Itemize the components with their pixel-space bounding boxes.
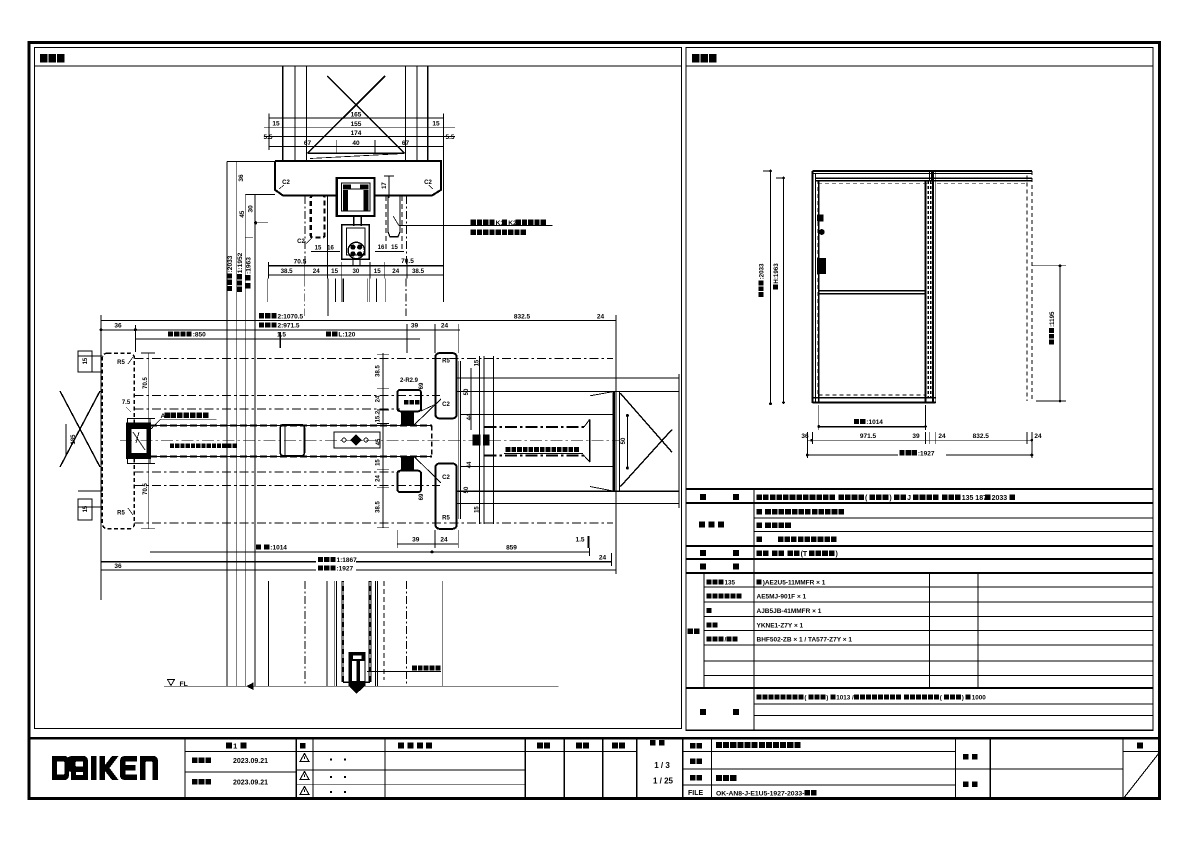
svg-text:R5: R5	[117, 511, 125, 517]
svg-text:155: 155	[351, 121, 362, 128]
svg-text:2:971.5: 2:971.5	[278, 323, 300, 330]
svg-text:832.5: 832.5	[973, 433, 990, 440]
svg-text:15: 15	[391, 245, 398, 251]
dim ext verticals right	[588, 548, 590, 556]
svg-text:24: 24	[392, 268, 399, 275]
spec label 仕上げ	[699, 522, 724, 528]
svg-text:H:1963: H:1963	[773, 263, 780, 284]
pocket end wall thick vertical	[613, 391, 616, 491]
projection verticals between sections	[267, 279, 269, 303]
elevation frame top lines	[813, 170, 1033, 172]
elevation right dim 1195	[1059, 266, 1061, 401]
svg-text:40: 40	[352, 140, 360, 147]
pocket rail bar dashdot edges	[485, 426, 585, 428]
header 第1版	[226, 742, 247, 751]
svg-text:38.5: 38.5	[412, 268, 425, 275]
svg-text:30: 30	[352, 268, 359, 275]
revision row dividers	[296, 769, 525, 771]
FL line	[164, 685, 559, 687]
spec sub 扉	[707, 608, 712, 613]
svg-text:70.5: 70.5	[143, 376, 149, 388]
elevation left dim line 2033	[770, 171, 772, 404]
pocket wall verticals	[457, 361, 459, 519]
svg-text:1013 /: 1013 /	[836, 695, 854, 702]
head jamb body outline	[275, 161, 441, 196]
spec label 品番	[688, 628, 700, 634]
svg-text:39: 39	[411, 323, 419, 330]
svg-text:R5: R5	[442, 516, 450, 522]
svg-text:C2: C2	[442, 475, 450, 481]
title block top border	[28, 737, 1160, 739]
svg-text::1014: :1014	[866, 419, 883, 426]
callout A fixed frame	[161, 412, 209, 419]
elevation bottom dim 1014	[819, 426, 926, 428]
mohair black lower	[401, 456, 414, 470]
left jamb outline	[102, 353, 134, 529]
callout leader top right	[393, 216, 399, 225]
svg-text:45: 45	[239, 210, 246, 218]
bottom dim 39 24	[397, 543, 458, 545]
name col dividers	[683, 768, 1123, 770]
svg-text:YKNE1-Z7Y × 1: YKNE1-Z7Y × 1	[757, 622, 804, 629]
hanger bolt	[353, 216, 355, 226]
svg-text:44: 44	[467, 461, 473, 468]
svg-text:24: 24	[938, 433, 946, 440]
break fold line	[310, 154, 404, 159]
fixed frame piece lower	[435, 464, 456, 529]
revision dots	[330, 759, 332, 761]
dim line 155 / ceiling line	[264, 126, 455, 128]
floor guide channel walls	[341, 581, 344, 682]
svg-text:R5: R5	[117, 360, 125, 366]
svg-text:36: 36	[114, 563, 122, 570]
svg-text:/: /	[725, 637, 727, 644]
pocket jamb verticals	[927, 181, 929, 397]
svg-text:): )	[889, 495, 891, 502]
svg-text:16: 16	[378, 245, 385, 251]
svg-text:15.2: 15.2	[376, 410, 382, 422]
svg-text:5.5: 5.5	[263, 134, 272, 141]
svg-text::850: :850	[193, 332, 206, 339]
svg-text::1014: :1014	[270, 545, 287, 552]
elevation rail band	[816, 177, 1033, 179]
svg-text:24: 24	[1034, 433, 1042, 440]
svg-text:15: 15	[432, 121, 440, 128]
svg-text::2033: :2033	[227, 255, 234, 272]
svg-text:15: 15	[376, 459, 382, 466]
svg-text:1000: 1000	[972, 695, 987, 702]
leader lines lower	[414, 456, 441, 483]
vertical height dim lines	[226, 161, 228, 686]
dim 50 rotated right	[621, 437, 627, 444]
door leaf left edge	[818, 181, 820, 403]
dim 15 rotated right bottom	[475, 506, 481, 513]
svg-text:15: 15	[331, 268, 338, 275]
dim 70.5 rotated bottom	[143, 482, 149, 494]
dim line 174 / ceiling line 2	[264, 135, 455, 137]
svg-text::1195: :1195	[1049, 311, 1056, 327]
svg-text:24: 24	[599, 554, 607, 561]
svg-text:971.5: 971.5	[860, 433, 877, 440]
svg-text:L:120: L:120	[338, 332, 355, 339]
svg-text::2033: :2033	[759, 263, 766, 279]
leader lines upper	[414, 399, 441, 425]
svg-text::1927: :1927	[337, 566, 354, 573]
centerline verticals below head	[304, 196, 306, 265]
head bottom dim line thick	[268, 265, 443, 267]
pocket jamb dim line vertical	[382, 353, 384, 528]
svg-text:5.5: 5.5	[445, 134, 454, 141]
dim line 1014 & 859	[150, 551, 590, 553]
svg-text:1:1952: 1:1952	[237, 252, 244, 273]
svg-text:2023.09.21: 2023.09.21	[233, 758, 268, 765]
wall break X left	[60, 391, 100, 467]
svg-text:15: 15	[83, 357, 89, 364]
header 版	[300, 743, 306, 749]
dim 185 rotated	[71, 434, 77, 445]
left panel frame	[35, 48, 682, 729]
svg-text:24: 24	[597, 313, 605, 320]
trolley stem lines	[352, 259, 354, 266]
svg-text:36: 36	[801, 433, 809, 440]
svg-text:1:1867: 1:1867	[337, 557, 358, 564]
svg-text:C2: C2	[424, 180, 432, 186]
dim line 40-67	[269, 146, 443, 148]
svg-text:17: 17	[382, 182, 388, 189]
svg-text:): )	[962, 695, 964, 702]
spec value 要式	[757, 494, 1015, 502]
hanger rail extrusion	[337, 178, 375, 216]
svg-text:15: 15	[475, 359, 481, 366]
svg-text:38.5: 38.5	[376, 500, 382, 512]
svg-text:135: 135	[725, 580, 736, 587]
door receiving channel step outline	[127, 418, 150, 463]
left wall stub lines	[78, 355, 102, 357]
svg-text:24: 24	[376, 474, 382, 481]
label cap screw right	[506, 447, 579, 452]
svg-text:1.5: 1.5	[575, 537, 584, 544]
pocket dashed outline	[1026, 176, 1028, 402]
svg-text:C2: C2	[442, 402, 450, 408]
FL small arrow	[247, 685, 258, 687]
svg-text:15: 15	[272, 121, 280, 128]
mohair holder upper	[397, 390, 421, 411]
dim 45 rotated	[239, 210, 246, 218]
elevation top dashed	[818, 182, 1027, 184]
header 縮尺	[650, 740, 664, 746]
value 図名	[716, 775, 736, 781]
pull handle plan	[280, 425, 304, 456]
first edition col divider	[185, 771, 296, 773]
label 図名	[690, 775, 702, 781]
svg-text:2:1070.5: 2:1070.5	[278, 313, 304, 320]
svg-text:): )	[826, 695, 828, 702]
label 組員	[963, 781, 977, 787]
right wall lines	[457, 377, 679, 379]
door top guide pocket right U	[388, 196, 400, 237]
svg-text:36: 36	[238, 174, 245, 182]
svg-text:15: 15	[315, 246, 322, 252]
door hardware lock case	[817, 258, 826, 274]
pocket dims rotated top	[376, 364, 382, 376]
svg-text::1963: :1963	[245, 257, 252, 274]
header 承認	[537, 743, 550, 749]
brace base line	[308, 152, 405, 154]
svg-text:69: 69	[419, 493, 425, 500]
svg-text:24: 24	[313, 268, 320, 275]
dim ticks 39-24 top	[406, 324, 408, 353]
header 頁	[1137, 743, 1143, 749]
dim 50 44 lower	[464, 486, 470, 493]
svg-text:1 / 25: 1 / 25	[653, 777, 674, 786]
header 作成	[612, 743, 625, 749]
svg-text:38.5: 38.5	[376, 364, 382, 376]
FL level mark	[168, 680, 175, 686]
X cross brace	[327, 76, 404, 153]
svg-text:185: 185	[71, 434, 77, 445]
dim line 1927	[100, 569, 616, 571]
svg-text:50: 50	[464, 486, 470, 493]
制定日 row	[192, 757, 211, 763]
elevation bottom dim row	[807, 439, 1032, 441]
rail end	[589, 419, 591, 462]
dim 45 rotated at plate	[376, 438, 382, 445]
svg-text:16: 16	[327, 246, 334, 252]
svg-text:39: 39	[912, 433, 920, 440]
dim 17 hanger	[382, 182, 388, 189]
wall stud lines above head jamb	[282, 66, 284, 161]
spec value panel	[757, 509, 845, 515]
door center dash-dot line	[120, 440, 620, 442]
header 改訂履歴	[398, 743, 432, 749]
pocket dims rotated bottom	[376, 459, 382, 466]
small dim arrow	[256, 222, 268, 224]
left panel header line	[35, 65, 682, 67]
spec sub 引手	[707, 622, 718, 627]
svg-text:AE5MJ-901F × 1: AE5MJ-901F × 1	[757, 594, 807, 601]
plan dim line 850	[135, 338, 420, 340]
door hardware thumbturn	[817, 214, 823, 221]
dim 15 rotated right top	[475, 359, 481, 366]
jamb dim line vertical	[148, 353, 150, 529]
DAIKEN logo	[52, 756, 158, 780]
plan dim line 971.5	[101, 329, 460, 331]
callout text line1	[471, 220, 546, 227]
svg-text:R5: R5	[442, 359, 450, 365]
right panel title 正面図	[692, 54, 716, 63]
label cap screw left	[170, 444, 237, 448]
svg-text:24: 24	[441, 323, 449, 330]
svg-text:AJB5JB-41MMFR × 1: AJB5JB-41MMFR × 1	[757, 608, 822, 615]
spec label 要式	[700, 494, 706, 500]
label 作名	[963, 754, 977, 760]
plan dim line 1070.5	[101, 320, 616, 322]
svg-text:BHF502-ZB × 1 / TA577-Z7Y × 1: BHF502-ZB × 1 / TA577-Z7Y × 1	[757, 637, 853, 644]
floor projection verticals	[267, 581, 269, 686]
spec label 把手	[700, 550, 706, 556]
wall hidden dash lines lower	[134, 471, 400, 473]
svg-text:15: 15	[374, 268, 381, 275]
rail end bracket black	[473, 435, 481, 446]
dim 70.5 rotated top	[143, 376, 149, 388]
spec value 備考	[757, 695, 987, 702]
spec value frame	[757, 536, 837, 542]
spec table column lines	[753, 489, 755, 730]
header 確認	[576, 743, 589, 749]
svg-text:1.5: 1.5	[277, 332, 286, 339]
elevation left dim line 1963	[783, 178, 785, 403]
spec sub 固定枠135	[707, 580, 736, 587]
fixed frame piece upper	[435, 353, 456, 418]
left panel title 断面図	[40, 54, 64, 63]
svg-text:67: 67	[402, 140, 410, 147]
svg-text:859: 859	[506, 545, 517, 552]
svg-text:): )	[836, 551, 838, 558]
svg-text:165: 165	[351, 112, 362, 119]
spec sub 本体錠	[707, 637, 738, 644]
svg-text:36: 36	[114, 322, 122, 329]
svg-text:30: 30	[248, 205, 255, 213]
dashed pocket verticals	[385, 196, 387, 252]
callout text line2	[471, 230, 527, 235]
spec label 備考	[700, 709, 706, 715]
svg-text:24: 24	[440, 537, 448, 544]
svg-text:50: 50	[621, 437, 627, 444]
revision triangles	[300, 754, 309, 762]
left wall cap 15 top	[78, 351, 92, 372]
svg-text:832.5: 832.5	[514, 313, 531, 320]
svg-text:2033: 2033	[992, 495, 1008, 502]
svg-text:45: 45	[376, 438, 382, 445]
wall break X right	[620, 393, 672, 452]
right panel header line	[686, 65, 1153, 67]
guide pin label	[412, 665, 441, 670]
svg-text:70.5: 70.5	[401, 258, 414, 265]
svg-text:39: 39	[412, 537, 420, 544]
label 品番	[690, 758, 702, 764]
head bottom dim line 2	[268, 274, 443, 276]
svg-text:2023.09.21: 2023.09.21	[233, 780, 268, 787]
head bottom dim ticks	[267, 262, 269, 279]
dim 69 rotated lower	[419, 493, 425, 500]
spec value 把手	[757, 550, 838, 558]
spec label 金具	[700, 564, 706, 570]
dim 50 44 upper	[464, 388, 470, 395]
svg-text:70.5: 70.5	[143, 482, 149, 494]
right wall end vertical	[678, 374, 680, 508]
spec value face	[757, 522, 791, 528]
spec table row lines	[686, 502, 1153, 504]
svg-text:OK-AN8-J-E1U5-1927-2033-: OK-AN8-J-E1U5-1927-2033-	[716, 791, 804, 798]
door leaf right edge	[925, 181, 927, 403]
trolley body	[342, 225, 370, 259]
elevation frame left verticals	[812, 171, 814, 403]
svg-text:15: 15	[475, 506, 481, 513]
wall hidden dash lines upper	[134, 358, 613, 360]
door hardware indicator	[819, 229, 825, 235]
label 名称	[690, 743, 702, 749]
svg-text:C2: C2	[297, 239, 305, 245]
pocket mouth wedges	[590, 392, 613, 396]
spec table outer	[686, 488, 1153, 490]
left wall cap 15 bottom	[78, 499, 92, 520]
svg-text:FL: FL	[180, 681, 188, 688]
svg-text:FILE: FILE	[688, 790, 703, 797]
svg-text:)AE2U5-11MMFR × 1: )AE2U5-11MMFR × 1	[763, 580, 826, 587]
dim line 165	[269, 117, 443, 119]
door mid rail	[819, 290, 926, 292]
spec sub レールセット	[707, 594, 742, 599]
改訂日 row	[192, 779, 211, 785]
dim 30 rotated	[248, 205, 255, 213]
elevation bottom dim 1927	[807, 454, 1032, 456]
title header underline	[185, 751, 637, 753]
svg-text:174: 174	[351, 130, 362, 137]
dim line 1867	[100, 561, 611, 563]
door receiving channel black	[126, 423, 151, 460]
door top guide pocket left	[311, 196, 325, 238]
mohair label	[404, 400, 420, 405]
value 名称	[716, 742, 801, 748]
rotated height labels	[227, 255, 234, 291]
svg-text:15: 15	[83, 505, 89, 512]
pocket mouth lines	[460, 414, 613, 416]
svg-text:(T: (T	[801, 551, 808, 558]
guide pin leader	[367, 670, 441, 672]
dim 36 rotated	[238, 174, 245, 182]
svg-text:1 / 3: 1 / 3	[654, 761, 670, 770]
svg-text:24: 24	[376, 395, 382, 402]
title block verticals	[184, 738, 186, 799]
trolley wheel	[348, 242, 364, 258]
svg-text:135 187: 135 187	[962, 495, 987, 502]
svg-text:7.5: 7.5	[122, 400, 131, 406]
svg-text:69: 69	[419, 382, 425, 389]
svg-text:1: 1	[233, 742, 237, 751]
page diagonal	[1123, 752, 1160, 800]
svg-text:67: 67	[304, 140, 312, 147]
mohair holder lower	[397, 471, 421, 492]
svg-text::1927: :1927	[918, 450, 935, 457]
value FILE	[716, 790, 817, 797]
dim 69 rotated upper	[419, 382, 425, 389]
right panel frame	[686, 48, 1153, 731]
door leaf plan bar	[150, 425, 432, 427]
door bottom	[819, 394, 926, 396]
guide pin	[349, 652, 366, 686]
mohair black upper	[401, 411, 414, 425]
svg-text:J: J	[907, 495, 911, 502]
svg-text:2-R2.9: 2-R2.9	[400, 378, 419, 384]
svg-text:38.5: 38.5	[281, 268, 294, 275]
lock plate plan	[334, 432, 380, 448]
